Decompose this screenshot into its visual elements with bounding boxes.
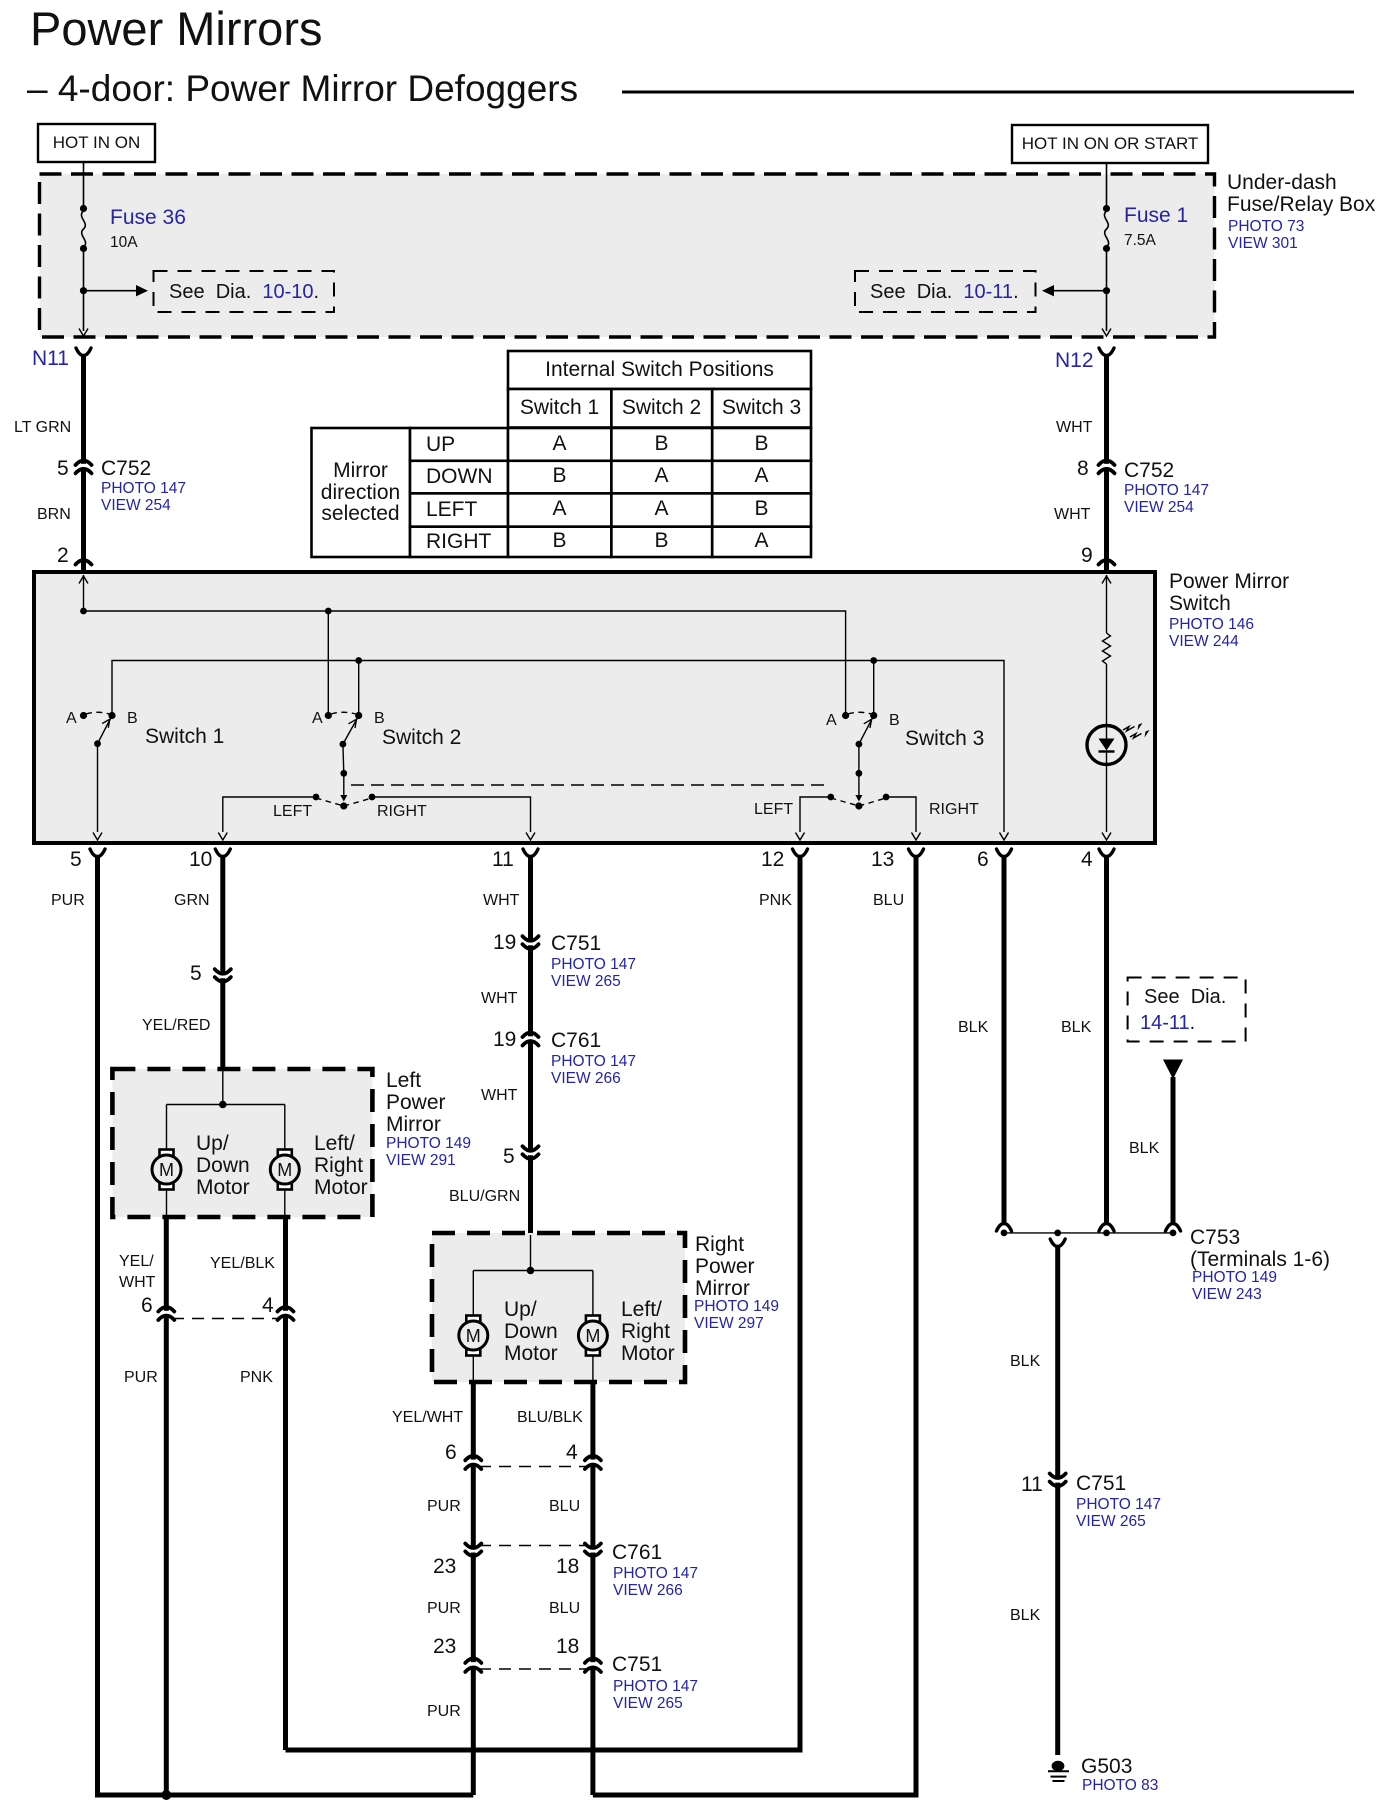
switch 3 rocker left contact	[827, 794, 834, 801]
left power mirror box	[112, 1069, 372, 1217]
node bus1 left	[80, 608, 87, 615]
wire left UD motor down	[166, 1190, 168, 1216]
label 2	[57, 545, 69, 567]
wire switch3 RIGHT to pin13	[886, 797, 916, 832]
label 9	[1081, 545, 1093, 567]
switch 3 contact B	[870, 712, 877, 719]
labels switch 2 rocker	[273, 803, 312, 820]
table text Internal Switch Positions	[508, 359, 811, 381]
switch 2 rocker right contact	[369, 794, 376, 801]
switch 3 rocker arc	[831, 798, 886, 806]
subtitle 4-door Power Mirror Defoggers	[27, 70, 578, 108]
connector pin12 terminal	[793, 849, 808, 857]
label HOT IN ON OR START	[1012, 135, 1208, 153]
title Power Mirrors	[30, 4, 322, 53]
switch 1 pivot	[94, 740, 101, 747]
label See Dia 10-11	[870, 282, 1019, 303]
label C761	[612, 1542, 662, 1564]
connector C753 ends pin4	[1099, 1224, 1114, 1232]
wire GRN pin10 down	[220, 856, 225, 1069]
connector C752 pin8 chevrons	[1103, 464, 1109, 468]
title underline rule	[622, 91, 1354, 94]
connector pin5 terminal	[90, 849, 105, 857]
wire BLK pin6 down	[1002, 856, 1007, 1222]
connector C753 ends triangle wire	[1166, 1224, 1181, 1232]
label 11 C751	[1021, 1474, 1043, 1496]
wire bus2 horizontal	[112, 661, 1004, 833]
connector 4 chevrons left mirror	[282, 1311, 288, 1315]
label YEL/RED	[142, 1017, 210, 1034]
resistor illumination	[1103, 633, 1111, 664]
motor right left/right	[578, 1316, 607, 1356]
wire BLK pin4 down	[1104, 856, 1109, 1222]
wire switch2 pivot to rocker	[342, 744, 345, 773]
connector 5 chevrons on GRN wire	[220, 975, 226, 979]
connector C752 pin2 chevron	[76, 560, 92, 565]
connector C751 18 chevrons	[590, 1662, 596, 1666]
wire right mirror feed bus	[473, 1270, 593, 1272]
motor right up/down	[459, 1316, 488, 1356]
label Left/Right Motor left	[314, 1133, 368, 1199]
connector C751 23 chevrons	[470, 1662, 476, 1666]
See Dia 14-11 dashed box	[1128, 978, 1246, 1042]
wire BLU pin13 down	[593, 856, 916, 1795]
See Dia 10-11 dashed box	[855, 271, 1036, 312]
arrowhead at fuse box bottom right	[1102, 329, 1111, 337]
wire switch2 B riser	[358, 661, 360, 716]
label 10A	[110, 235, 138, 252]
label PUR right 2	[427, 1600, 461, 1617]
label BLU right 1	[549, 1498, 580, 1515]
label BLK pin4 wire	[1061, 1019, 1091, 1036]
wire LED to pin4	[1106, 764, 1108, 832]
connector N12 terminal	[1099, 348, 1114, 356]
wire BLK to G503	[1055, 1246, 1060, 1755]
label Up/Down Motor right	[504, 1299, 558, 1365]
label N12	[1055, 350, 1094, 372]
connector pin4 terminal	[1099, 849, 1114, 857]
connector N11 terminal	[76, 348, 91, 356]
labels switch 3 rocker	[754, 801, 793, 818]
switch 1 contact A	[80, 712, 87, 719]
node junction to See Dia 10-11	[1103, 287, 1110, 294]
label WHT mid1	[481, 990, 517, 1007]
wire YEL/WHT - PUR from right UD motor	[471, 1381, 476, 1795]
label 6 left mirror	[141, 1295, 153, 1317]
label 19 C751	[493, 932, 516, 954]
connector pin6 terminal	[997, 849, 1012, 857]
wire arrow to See Dia 10-10	[86, 290, 138, 292]
label G503	[1081, 1756, 1132, 1778]
box HOT IN ON OR START	[1012, 125, 1208, 163]
node PUR junction	[161, 1790, 171, 1800]
LED light arrows	[1123, 727, 1135, 732]
dashed connector link left mirror	[172, 1318, 280, 1320]
connector C752 pin9 chevron	[1099, 560, 1115, 565]
label BLU/GRN	[449, 1188, 520, 1205]
label 5 on BLU/GRN	[503, 1146, 515, 1168]
wire N12 WHT vertical	[1104, 355, 1109, 572]
label 23 C751	[433, 1636, 456, 1658]
switch 1 throw arc	[86, 712, 110, 714]
label 8 C752 right	[1077, 458, 1089, 480]
node fuse36 bottom	[80, 245, 87, 252]
label Under-dash Fuse/Relay Box	[1227, 172, 1375, 216]
wire PUR pin5 down and across bottom	[98, 856, 474, 1795]
label PUR right 3	[427, 1703, 461, 1720]
label 6 right mirror	[445, 1442, 457, 1464]
label Up/Down Motor left	[196, 1133, 250, 1199]
wire from HOT IN ON OR START into fuse 1	[1106, 164, 1108, 208]
wire entry pin9 to resistor	[1106, 575, 1108, 633]
switch 3 lever	[859, 719, 872, 745]
wire YEL/BLK - PNK from left LR motor	[283, 1216, 288, 1750]
switch 2 throw arc	[331, 712, 356, 714]
label 7.5A	[1124, 233, 1156, 250]
connector 4 chevrons right mirror	[590, 1460, 596, 1464]
See Dia 10-10 dashed box	[154, 271, 335, 312]
node right mirror split	[527, 1267, 535, 1275]
label YEL/WHT right	[392, 1409, 463, 1426]
label See Dia 10-10	[169, 282, 319, 303]
label BLK upper	[1010, 1353, 1040, 1370]
wire switch1 to pin5	[97, 744, 99, 832]
label 18 C751	[556, 1636, 579, 1658]
node fuse1 bottom	[1103, 245, 1110, 252]
label BLK triangle wire	[1129, 1140, 1159, 1157]
wire BLU/BLK - BLU from right LR motor	[590, 1381, 595, 1795]
connector 6 chevrons left mirror	[163, 1311, 169, 1315]
connector C751 pin19 chevrons	[527, 942, 533, 946]
label 5 on GRN wire	[190, 963, 202, 985]
label YEL/WHT left	[119, 1251, 155, 1293]
switch 1 contact B	[108, 712, 115, 719]
switch 1 lever	[98, 719, 111, 744]
label Right Power Mirror	[695, 1234, 755, 1300]
fuse F36 element	[81, 211, 85, 247]
node fuse1 top	[1103, 205, 1110, 212]
node junction to See Dia 10-10	[80, 287, 87, 294]
label YEL/BLK	[210, 1255, 275, 1272]
dashed connector link right mirror 6-4	[479, 1466, 587, 1468]
label N11	[32, 348, 69, 370]
wire fuse1 down	[1106, 248, 1108, 331]
label HOT IN ON	[38, 134, 155, 152]
wire switch2 LEFT to pin10	[223, 797, 316, 832]
wire arrow to See Dia 10-11	[1052, 290, 1104, 292]
label 5 C752 left	[57, 458, 69, 480]
node fuse36 top	[80, 205, 87, 212]
triangle BLK feed	[1163, 1060, 1183, 1080]
wire switch2 A riser	[327, 611, 329, 715]
label BRN	[37, 506, 71, 523]
label PNK left mirror	[240, 1369, 273, 1386]
wire left LR motor down	[284, 1190, 286, 1216]
switch 3 contact A	[842, 712, 849, 719]
label PUR right 1	[427, 1498, 461, 1515]
ground G503	[1052, 1761, 1065, 1771]
label 19 C761	[493, 1029, 516, 1051]
label 23 C761	[433, 1556, 456, 1578]
connector C753 ends pin6	[997, 1224, 1012, 1232]
wire BLK from triangle	[1171, 1077, 1176, 1222]
switch 2 rocker arc	[316, 798, 372, 806]
node C753 bus dots	[1001, 1230, 1008, 1237]
wire switch3 LEFT to pin12	[800, 797, 831, 832]
label C753 terminals	[1190, 1227, 1330, 1271]
node bus2 switch2 tap	[355, 657, 362, 664]
connector pin10 terminal	[215, 849, 230, 857]
under-dash fuse/relay box	[40, 174, 1215, 337]
right power mirror box	[432, 1233, 685, 1382]
label 4 left mirror	[262, 1295, 274, 1317]
switch 2 contact B	[355, 712, 362, 719]
switch 3 throw arc	[848, 712, 872, 714]
dashed connector link C751	[479, 1668, 587, 1670]
wire entry into left mirror	[222, 1071, 224, 1105]
C753 bus line	[1004, 1232, 1173, 1234]
label Left Power Mirror	[386, 1070, 446, 1136]
wire fuse36 down	[83, 248, 85, 331]
label BLU right 2	[549, 1600, 580, 1617]
label C751 bottom	[612, 1654, 662, 1676]
connector C761 pin19 chevrons	[527, 1036, 533, 1040]
connector C761 23 chevrons	[470, 1549, 476, 1553]
label 4 right mirror	[566, 1442, 578, 1464]
wire N11 LT GRN/BRN vertical	[81, 355, 86, 572]
internal switch positions table	[312, 351, 812, 557]
switch 2 rocker left contact	[313, 794, 320, 801]
wire bus1 horizontal	[84, 611, 846, 712]
mechanical link dashed	[351, 784, 825, 786]
label Fuse 1	[1124, 205, 1188, 227]
fuse F1 element	[1104, 211, 1108, 247]
wire resistor to LED	[1106, 664, 1108, 726]
label Power Mirror Switch	[1169, 571, 1289, 615]
switch 2 pivot	[340, 741, 347, 748]
wire entry into right mirror	[530, 1235, 532, 1271]
label PUR left mirror	[124, 1369, 158, 1386]
wire YEL/WHT - PUR from left UD motor	[164, 1216, 169, 1795]
switch 2 lever	[343, 719, 357, 745]
labels switch 1	[66, 710, 77, 727]
connector 5 chevrons on BLU/GRN	[527, 1152, 533, 1156]
wire left mirror feed bus	[167, 1104, 285, 1106]
LED indicator	[1087, 726, 1126, 765]
connector C752 pin5 chevrons	[80, 464, 86, 468]
dashed connector link C761	[479, 1545, 587, 1547]
wire PNK pin12 down	[286, 856, 801, 1750]
label Fuse 36	[110, 207, 186, 229]
label 18 C761	[556, 1556, 579, 1578]
label Left/Right Motor right	[621, 1299, 675, 1365]
wire switch3 B riser	[873, 661, 875, 716]
wire switch3 pivot to rocker	[858, 744, 860, 773]
label WHT right top	[1056, 419, 1092, 436]
wire switch2 RIGHT to pin11	[372, 797, 531, 832]
motor left up/down	[152, 1150, 181, 1190]
connector C761 18 chevrons	[590, 1549, 596, 1553]
label BLK lower	[1010, 1607, 1040, 1624]
switch 3 rocker right contact	[883, 794, 890, 801]
connector pin11 terminal	[523, 849, 538, 857]
connector C753 output terminal	[1050, 1239, 1065, 1247]
wire WHT pin11 down	[528, 856, 533, 1233]
arrowhead at fuse box bottom left	[79, 329, 88, 337]
label BLU/BLK	[517, 1409, 583, 1426]
label See Dia 14-11	[1144, 987, 1226, 1008]
switch 2 contact A	[325, 712, 332, 719]
switch 3 pivot	[856, 741, 863, 748]
label LT GRN	[14, 419, 71, 436]
connector pin13 terminal	[909, 849, 924, 857]
wire entry pin2 into box	[83, 575, 85, 611]
label WHT right bottom	[1054, 506, 1090, 523]
wire right LR motor down	[592, 1356, 594, 1381]
connector C751 pin11 chevrons	[1055, 1479, 1061, 1483]
wire right UD motor down	[472, 1356, 474, 1381]
labels switch 2	[312, 710, 323, 727]
label BLK pin6 wire	[958, 1019, 988, 1036]
label WHT mid2	[481, 1087, 517, 1104]
box HOT IN ON	[38, 124, 155, 162]
wire from HOT IN ON into fuse 36	[83, 163, 85, 208]
node bus1 switch2 tap	[325, 608, 332, 615]
wire colour labels below switch box	[51, 892, 85, 909]
labels switch 3	[826, 712, 837, 729]
node bus2 switch3 tap	[870, 657, 877, 664]
pin labels below switch box	[70, 849, 82, 871]
node left mirror split	[219, 1101, 227, 1109]
power mirror switch box	[34, 572, 1155, 843]
connector 6 chevrons right mirror	[470, 1460, 476, 1464]
motor left left/right	[270, 1150, 299, 1190]
